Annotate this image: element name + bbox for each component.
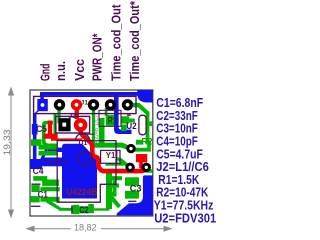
C2 right line bbox=[94, 208, 110, 210]
R2 red square bbox=[136, 154, 147, 162]
resistor R1 outline bbox=[99, 110, 121, 126]
capacitor C1 pad left lower bbox=[30, 196, 40, 202]
jumper J2 pad 2 bbox=[74, 118, 88, 132]
J1 pin3 bbox=[71, 99, 82, 110]
C5 red T vertical bbox=[48, 121, 52, 135]
left column bar 1 bbox=[39, 145, 58, 150]
label Y1 bbox=[105, 150, 116, 160]
wire pin5 stub bbox=[105, 108, 108, 116]
C5 red bar bbox=[44, 134, 58, 139]
green vertical below R1 bbox=[99, 118, 105, 148]
right rail cross bar bbox=[143, 121, 152, 126]
wire pin3 stub (red) bbox=[75, 107, 79, 119]
wire pin2 stub bbox=[57, 107, 60, 123]
diagonal from C1 to C2 bbox=[44, 198, 74, 211]
svg-text:Y1: Y1 bbox=[106, 150, 116, 160]
C5 left pad bulge bbox=[32, 124, 38, 135]
pin1 stub bbox=[40, 94, 44, 101]
resistor R1 pad bbox=[106, 115, 114, 126]
top header labels bbox=[38, 0, 142, 81]
svg-text:Time_cod_Out*: Time_cod_Out* bbox=[127, 0, 142, 81]
svg-text:U2=FDV301: U2=FDV301 bbox=[154, 210, 216, 225]
U1 notch arc bbox=[76, 134, 90, 141]
svg-text:U2: U2 bbox=[126, 121, 136, 131]
svg-text:Gnd: Gnd bbox=[38, 63, 53, 81]
wire mid vertical (blue) bbox=[114, 95, 132, 134]
vertical green above C2 bbox=[106, 172, 112, 209]
red thin link to J2 net bbox=[51, 138, 83, 140]
svg-text:R1: R1 bbox=[108, 115, 117, 125]
wire pin4 vertical bbox=[92, 108, 95, 146]
blue short bar bbox=[48, 148, 63, 152]
J1 pin1 hole bbox=[41, 103, 45, 107]
wire left edge (blue) bbox=[33, 111, 39, 164]
IC U1 outline bbox=[57, 141, 116, 203]
via C bbox=[142, 163, 151, 172]
svg-text:Time_cod_Out: Time_cod_Out bbox=[109, 4, 124, 81]
parts list bbox=[154, 95, 216, 225]
jumper J2 pad 1 bbox=[58, 118, 70, 131]
capacitor C5 wire ring bbox=[44, 123, 58, 146]
J2 silk line bbox=[80, 133, 94, 135]
wire pin6 diagonal bbox=[128, 103, 149, 116]
J1 pin5 bbox=[105, 99, 116, 110]
dimension line horizontal 18,82 bbox=[27, 226, 171, 231]
capacitor C1 pad left upper bbox=[31, 185, 39, 192]
connector J1 outline bbox=[34, 96, 136, 113]
J2 left green vertical bbox=[54, 114, 57, 141]
capacitor C4 pad (blue) bbox=[30, 159, 42, 169]
svg-text:C5: C5 bbox=[36, 124, 47, 134]
C3 comb bar2 bbox=[108, 183, 119, 187]
jumper J2 outline bbox=[56, 116, 90, 133]
C3 comb bar3 bbox=[108, 192, 117, 197]
svg-text:U4224B: U4224B bbox=[66, 187, 97, 198]
capacitor C2 pad right bbox=[88, 204, 94, 213]
transistor U2 body bbox=[139, 115, 146, 135]
via B bbox=[125, 163, 134, 172]
via A bbox=[126, 144, 135, 153]
resistor R2 pad bbox=[136, 140, 143, 145]
Y1 right pin diagonal to via B bbox=[118, 158, 130, 168]
C4 lower bar B bbox=[42, 180, 59, 186]
blue blob top right bbox=[137, 90, 152, 103]
left column bar 2 bbox=[39, 151, 58, 156]
svg-text:R2: R2 bbox=[142, 137, 153, 147]
wire to via A (green) bbox=[94, 143, 133, 151]
C2 tick bbox=[71, 206, 73, 214]
right edge blue bar bottom bbox=[117, 175, 153, 215]
C1 tick top bbox=[31, 183, 40, 185]
J1 pin2 bbox=[54, 99, 65, 110]
svg-text:PWR_ON*: PWR_ON* bbox=[90, 33, 105, 81]
C1 right bar D bbox=[40, 187, 59, 191]
C3 tick bbox=[128, 200, 136, 202]
svg-text:U1: U1 bbox=[79, 140, 88, 147]
svg-text:C2: C2 bbox=[79, 205, 89, 215]
J1 pin6 bbox=[122, 99, 133, 110]
svg-text:C3: C3 bbox=[130, 183, 142, 193]
red copper bbox=[44, 107, 147, 171]
capacitor C3 pad top bbox=[125, 177, 139, 186]
C3 comb spine bbox=[113, 176, 117, 196]
J1 bottom ticks bbox=[127, 114, 131, 116]
svg-text:n.u.: n.u. bbox=[53, 61, 68, 81]
capacitor C3 pad bottom bbox=[125, 191, 139, 199]
svg-text:18,82: 18,82 bbox=[74, 223, 97, 233]
green below U2 left pad bbox=[121, 125, 127, 132]
green bar left of C5 bottom bbox=[31, 139, 42, 146]
pad J1 pin1 bbox=[37, 99, 48, 111]
crystal Y1 outline bbox=[101, 150, 120, 163]
svg-text:C1: C1 bbox=[38, 189, 48, 199]
U2 small bar bbox=[129, 119, 135, 123]
svg-text:19,33: 19,33 bbox=[2, 130, 13, 156]
U2 left pad bbox=[121, 116, 129, 123]
Y1 left pin line to via B bbox=[106, 163, 124, 166]
right rail vertical bbox=[146, 112, 150, 144]
wire resistor R2 elbow bbox=[135, 141, 151, 152]
C4 silk line bbox=[43, 159, 70, 161]
wire J2 to vias (red) bbox=[81, 127, 147, 171]
wire top rail (blue) bbox=[40, 92, 140, 96]
C2 mid green under text bbox=[79, 206, 88, 213]
zigzag to blue corner bbox=[111, 197, 122, 209]
C1 right bar F bbox=[40, 197, 59, 202]
svg-text:C4: C4 bbox=[33, 166, 44, 176]
capacitor C2 pad left bbox=[73, 205, 79, 214]
blue copper bbox=[30, 90, 152, 215]
R2 red stem to via C bbox=[139, 162, 146, 171]
C1 tick bottom bbox=[31, 205, 40, 207]
board outline bbox=[30, 90, 153, 216]
IC U1 copper pour (blue) bbox=[62, 144, 97, 199]
U1 notch box bbox=[79, 153, 93, 164]
green bar right edge above blue bbox=[141, 169, 152, 172]
C4 lower bar A bbox=[33, 176, 47, 181]
blue diagonal bbox=[40, 149, 48, 162]
C2 left line bbox=[59, 208, 73, 210]
J1 pin4 bbox=[88, 99, 99, 110]
dimension line vertical 19,33 bbox=[9, 88, 14, 217]
svg-text:Vcc: Vcc bbox=[72, 59, 87, 81]
blue bar to big polygon bbox=[42, 158, 64, 167]
green copper bbox=[30, 103, 152, 214]
C3 comb bar1 bbox=[108, 176, 122, 180]
